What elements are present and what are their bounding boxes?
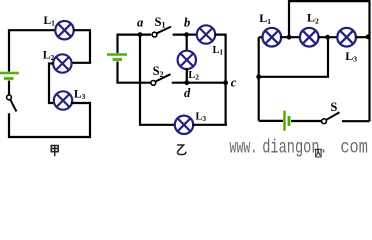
wire L2-L3 [318, 36, 338, 38]
lamp L3 (bing) [337, 28, 356, 47]
wire L1 east to right vertical, down to bottom [215, 35, 226, 125]
switch (jia) blade (open) [10, 99, 16, 111]
switch S1 blade (open) [157, 27, 171, 34]
wire L3 east, right side down, bottom wire, up to switch contact [9, 103, 90, 137]
lamp L3 [54, 91, 72, 109]
node c [223, 80, 228, 85]
bottom wire left of battery [259, 120, 284, 122]
lamp L2 (bing) [300, 28, 319, 47]
wire L3 east to right vertical [355, 36, 369, 38]
wire top-left: corner to L1 west [9, 30, 55, 72]
lamp L2 [53, 54, 71, 72]
battery (jia): short thick plate [4, 77, 14, 80]
lamp L1 (yi) [197, 25, 215, 43]
wire S2 to d to c [172, 82, 226, 84]
label BING [314, 149, 322, 157]
wire L2 down to node d [186, 68, 188, 82]
wire a down to bottom-left corner, bottom wire to L3 [140, 35, 176, 125]
svg-text:S: S [330, 100, 337, 114]
lamp L3 (yi) [175, 116, 193, 134]
lamp L1 [55, 21, 73, 39]
node d [184, 80, 189, 85]
top wire with two verticals [289, 1, 370, 37]
switch S blade (open) [326, 112, 339, 119]
inner branch wire to L2/L3 junction [259, 37, 328, 77]
svg-text:com: com [340, 137, 368, 159]
wire b down to L2 [186, 35, 188, 52]
battery (yi) short thick plate [113, 58, 123, 61]
right vertical down to bottom corner [368, 37, 370, 121]
wire top: corner to S1 [118, 35, 152, 54]
node a [138, 32, 143, 37]
battery (bing) short thick plate [287, 116, 290, 126]
wire S1 to b to L1 [173, 33, 198, 35]
svg-text:diangon.: diangon. [262, 137, 328, 159]
wire battery to switch S [291, 120, 321, 122]
svg-text:c: c [231, 75, 237, 89]
battery (bing) long thin plate [283, 111, 286, 131]
switch S2 blade (open) [156, 74, 171, 81]
label JIA [51, 146, 58, 157]
junction dot L2/L3 [325, 35, 330, 40]
svg-text:b: b [184, 15, 190, 29]
lamp L2 (yi) [178, 51, 196, 69]
svg-text:www.: www. [230, 137, 258, 159]
left vertical down to bottom [258, 37, 260, 121]
label YI [177, 145, 186, 155]
node b [184, 32, 189, 37]
lamp row left: from left vertical to L1 [259, 36, 264, 38]
svg-text:a: a [137, 15, 143, 29]
battery (yi) long thin plate [107, 53, 127, 56]
junction dot L1/L2 [287, 35, 292, 40]
svg-text:d: d [184, 86, 191, 100]
wire battery to switch pivot [8, 81, 10, 95]
switch S2 pivot [151, 81, 156, 86]
wire L1 east to L2 east bracket [72, 30, 90, 63]
switch S pivot [322, 119, 327, 124]
wire S to bottom-right corner [342, 120, 370, 122]
junction dot right [366, 34, 371, 39]
switch S1 pivot [152, 32, 157, 37]
wire L3 east to bottom-right corner [192, 124, 227, 126]
junction dot left vertical [256, 74, 261, 79]
switch (jia) pivot circle [7, 95, 12, 100]
wire L1-L2 [280, 36, 301, 38]
lamp L1 (bing) [263, 28, 282, 47]
battery (jia): long thin plate [0, 72, 19, 75]
wire battery down, corner to S2 [118, 62, 151, 83]
wire L2 west down to L3 west [49, 64, 55, 104]
